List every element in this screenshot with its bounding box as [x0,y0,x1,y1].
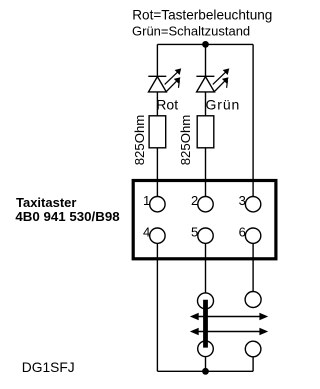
wire: bottom-left contact to bottom rail [205,357,207,372]
wire: pin 5 down to switch contact [205,243,207,293]
pin 2 circle [198,197,213,212]
wire: rail down to pin 3 [252,44,254,196]
wire: LED Gruen anode to resistor R2 [205,92,207,116]
wire: R1 to pin 1 [156,148,158,197]
svg-text:Grün=Schaltzustand: Grün=Schaltzustand [132,23,250,38]
LED "Gruen" light arrow upper [213,68,230,84]
wire: bottom-right contact down [252,357,254,372]
LED "Rot" light arrow lower [166,77,181,92]
svg-text:825Ohm: 825Ohm [132,115,147,166]
pin 5 circle [198,228,213,243]
pin 6 circle [245,228,260,243]
svg-text:3: 3 [239,193,246,208]
node: junction dot on rail at Gruen branch [202,41,209,48]
svg-text:Rot: Rot [156,97,178,113]
node: junction dot on bottom rail [202,368,209,375]
switch contact top-left [198,293,214,309]
motion arrow upper (double headed) [190,313,268,320]
switch actuator bar [203,300,208,348]
switch contact bottom-left [198,341,214,357]
wire: rail down to LED Gruen cathode [205,44,207,76]
wire: R2 to pin 2 [205,148,207,197]
svg-text:Rot=Tasterbeleuchtung: Rot=Tasterbeleuchtung [132,8,272,23]
pin 3 circle [245,197,260,212]
LED "Rot" triangle [149,77,167,92]
switch contact bottom-right [245,341,261,357]
svg-text:5: 5 [191,225,198,240]
pin 4 circle [150,228,165,243]
pin 1 circle [150,197,165,212]
wire: rail down to LED Rot cathode [156,44,158,76]
svg-text:6: 6 [239,225,246,240]
connector outline: Taxitaster 4B0 941 530/B98 [133,181,276,259]
svg-text:2: 2 [191,193,198,208]
resistor R2 825Ohm body [197,116,214,148]
LED "Gruen" cathode bar [196,75,214,77]
wire: bottom rail [157,370,253,372]
motion arrow lower (double headed) [190,328,268,335]
LED "Gruen" triangle [197,77,215,92]
switch contact top-right [245,292,261,308]
wire: LED Rot anode to resistor R1 [156,92,158,116]
wire: pin 6 down to switch contact [252,243,254,291]
wire: pin 4 down to bottom rail [156,243,158,371]
resistor R1 825Ohm body [149,116,166,148]
svg-text:DG1SFJ: DG1SFJ [22,360,75,375]
svg-text:4: 4 [143,225,150,240]
svg-text:1: 1 [143,193,150,208]
svg-text:825Ohm: 825Ohm [178,115,193,166]
wire: top supply rail [157,43,253,45]
LED "Rot" light arrow upper [165,68,182,84]
LED "Gruen" light arrow lower [214,77,229,92]
svg-text:4B0 941 530/B98: 4B0 941 530/B98 [15,209,119,224]
LED "Rot" cathode bar [148,75,166,77]
svg-text:Grün: Grün [206,97,241,113]
